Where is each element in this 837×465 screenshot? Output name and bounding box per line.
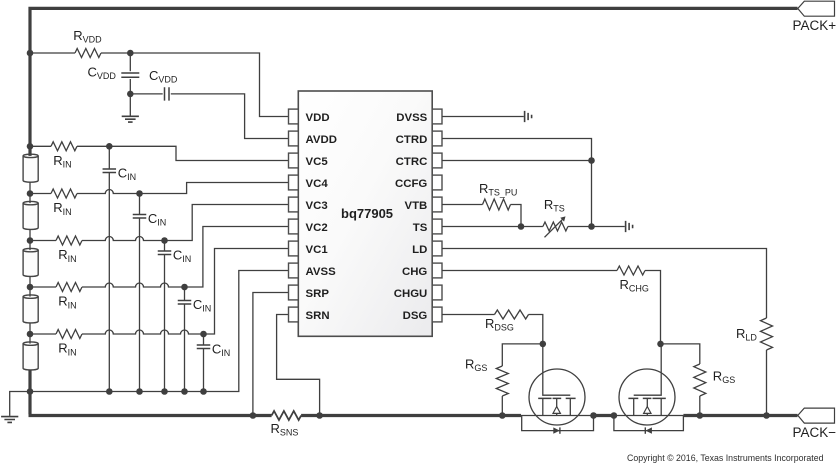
svg-text:LD: LD [412, 244, 427, 256]
pin VC3 (left) [289, 197, 299, 212]
wire C_IN 2 upper lead [139, 194, 141, 215]
wire to R_IN 3 [30, 240, 56, 242]
node TS pullup junction [518, 223, 525, 230]
svg-text:RTS_PU: RTS_PU [479, 181, 517, 198]
battery cell 1 [23, 156, 38, 182]
node cell junction 4 [27, 284, 34, 291]
wire rail under Q2 (thin) [614, 415, 684, 417]
pin CTRD (right) [432, 131, 442, 146]
svg-text:AVSS: AVSS [306, 266, 337, 278]
node R_GS rail junction (Q2) [697, 412, 704, 419]
node C_IN 4 bottom [181, 388, 188, 395]
wire cell5 top stub [29, 334, 31, 344]
ground below C_VDD [122, 116, 139, 122]
pin VC5 (left) [289, 153, 299, 168]
svg-text:AVDD: AVDD [306, 134, 337, 146]
svg-text:RSNS: RSNS [271, 421, 299, 438]
node TS ground junction [588, 223, 595, 230]
wire SRN sense [277, 315, 320, 416]
wire AVSS bus to pin [30, 271, 289, 392]
wire CTRC [442, 160, 592, 162]
wire to ground [129, 94, 131, 116]
wire cell1 top stub (thick) [28, 146, 31, 156]
transistor Q2 (CHG NFET) [619, 369, 675, 425]
wire CTRC to TS node [591, 161, 593, 227]
wire cell2 top stub [29, 194, 31, 204]
svg-text:RTS: RTS [544, 197, 565, 214]
node Q2 gate junction [657, 341, 664, 348]
wire DVSS to ground [442, 116, 524, 118]
wire C_VDD1 bottom lead [129, 79, 131, 94]
battery cell 5 [23, 344, 38, 370]
svg-text:RIN: RIN [58, 247, 76, 264]
wire R_TS_PU to TS node [511, 205, 522, 227]
node Q2 source rail junction [611, 412, 618, 419]
capacitor C_IN 4 [178, 301, 192, 305]
wire to system ground [10, 392, 30, 416]
thermistor R_TS [543, 222, 568, 231]
wire cell3 top stub [29, 241, 31, 251]
svg-text:CIN: CIN [148, 211, 166, 228]
pin TS (right) [432, 219, 442, 234]
wire C_IN 4 upper lead [184, 287, 186, 300]
wire cell4 top stub [29, 287, 31, 297]
pin LD (right) [432, 241, 442, 256]
resistor R_IN 2 [51, 189, 77, 198]
wire Q2 body diode loop [614, 416, 684, 431]
wire PACK- rail right (thick) [683, 414, 797, 417]
node C_IN column 3 top [161, 237, 168, 244]
svg-text:CHG: CHG [402, 266, 427, 278]
node R_LD rail junction [763, 412, 770, 419]
node cell junction 3 [27, 237, 34, 244]
wire R_GS to rail (Q2) [699, 396, 701, 416]
wire C_IN 5 upper lead [203, 334, 205, 345]
node PACK- terminal [798, 408, 835, 423]
pin CCFG (right) [432, 175, 442, 190]
node cell junction 1 [27, 143, 34, 150]
svg-text:Copyright © 2016, Texas Instru: Copyright © 2016, Texas Instruments Inco… [627, 453, 824, 463]
svg-text:CIN: CIN [118, 165, 136, 182]
svg-text:CTRD: CTRD [396, 134, 428, 146]
resistor R_GS (Q2) [694, 364, 706, 396]
svg-text:DSG: DSG [403, 310, 428, 322]
battery cell 4 [23, 297, 38, 323]
svg-text:PACK−: PACK− [793, 425, 837, 440]
wire Q2 gate to R_GS [661, 344, 700, 364]
svg-text:bq77905: bq77905 [341, 206, 393, 221]
svg-text:RDSG: RDSG [485, 316, 514, 333]
node C_VDD bottom junction [127, 91, 134, 98]
wire C_IN 3 lower lead [164, 255, 166, 392]
pin SRN (left) [289, 307, 299, 322]
wire AVDD pin connection [171, 94, 289, 139]
svg-text:RLD: RLD [736, 326, 757, 343]
pin AVSS (left) [289, 263, 299, 278]
wire PACK- rail mid (thick) [301, 414, 521, 417]
pin CTRC (right) [432, 153, 442, 168]
node cell junction 5 [27, 331, 34, 338]
wire PACK+ rail (thick) [30, 8, 798, 146]
wire cell3 bottom stub [29, 276, 31, 287]
node C_IN column 4 top [181, 284, 188, 291]
wire cell2 bottom stub [29, 229, 31, 240]
diode Q1 body [553, 427, 560, 433]
wire rail under Q1 (thin) [521, 415, 594, 417]
battery cell 3 [23, 250, 38, 276]
resistor R_DSG [495, 310, 529, 319]
ground DVSS [525, 111, 532, 122]
node VDD-top junction [27, 50, 34, 57]
wire R_IN 2 to VC4 pin [77, 190, 140, 194]
ground TS [626, 221, 633, 232]
wire R_IN 1 to VC5 pin [77, 145, 109, 147]
resistor R_IN 4 [56, 283, 82, 292]
svg-text:RIN: RIN [53, 200, 71, 217]
node C_IN 1 bottom [106, 388, 113, 395]
wire to R_IN 4 [30, 286, 56, 288]
svg-text:CIN: CIN [173, 247, 191, 264]
node C_IN 3 bottom [161, 388, 168, 395]
wire cell4 bottom stub [29, 323, 31, 334]
pin VC1 (left) [289, 241, 299, 256]
svg-text:CVDD: CVDD [149, 68, 178, 85]
svg-text:RIN: RIN [53, 153, 71, 170]
node cell junction 2 [27, 190, 34, 197]
wire R_CHG to Q2 gate [645, 271, 661, 344]
wire R_DSG to Q1 gate [529, 315, 543, 344]
svg-text:PACK+: PACK+ [793, 18, 837, 33]
svg-text:DVSS: DVSS [396, 112, 427, 124]
wire VTB to R_TS_PU [442, 204, 483, 206]
wire C_IN 1 lower lead [108, 173, 110, 392]
node Q1 gate junction [540, 341, 547, 348]
wire CHG to R_CHG [442, 270, 617, 272]
ground bottom-left [1, 417, 18, 423]
resistor R_IN 3 [56, 236, 82, 245]
resistor R_VDD [75, 49, 101, 58]
svg-text:RVDD: RVDD [73, 28, 102, 45]
wire Q1 gate to R_GS [502, 344, 543, 366]
node CTRC junction [588, 157, 595, 164]
wire C_IN 1 upper lead [108, 146, 110, 169]
node PACK+ terminal [798, 1, 835, 16]
wire R_LD to rail [766, 350, 768, 416]
resistor R_LD [761, 318, 773, 350]
wire C_IN 5 lower lead [203, 349, 205, 392]
resistor R_IN 5 [56, 330, 82, 339]
node C_IN column 5 top [200, 331, 207, 338]
svg-text:CTRC: CTRC [396, 156, 428, 168]
diode Q2 body [645, 427, 652, 433]
wire SRP sense [253, 293, 289, 416]
svg-text:VC3: VC3 [306, 200, 328, 212]
wire TS to R_TS [521, 226, 543, 228]
wire R_GS to rail (Q1) [501, 396, 503, 416]
pin AVDD (left) [289, 131, 299, 146]
capacitor C_IN 1 [103, 169, 117, 173]
pin VTB (right) [432, 197, 442, 212]
wire cell1 bottom stub [29, 182, 31, 193]
node SRN rail junction [316, 412, 323, 419]
wire to R_IN 2 [30, 193, 51, 195]
wire CTRD [442, 139, 592, 161]
svg-text:SRN: SRN [306, 310, 330, 322]
node R_GS rail junction (Q1) [499, 412, 506, 419]
op-amp U1 body (bq77905) [298, 91, 432, 336]
svg-text:CVDD: CVDD [88, 65, 117, 82]
svg-text:RCHG: RCHG [620, 277, 649, 294]
svg-text:VDD: VDD [306, 112, 330, 124]
wire R_VDD to C_VDD node [101, 52, 130, 54]
svg-text:VC4: VC4 [306, 178, 329, 190]
capacitor C_IN 2 [133, 215, 147, 219]
node C_IN 2 bottom [136, 388, 143, 395]
wire C_IN 2 lower lead [139, 218, 141, 391]
wire to R_VDD [30, 52, 75, 54]
resistor R_SNS [272, 411, 302, 420]
pin VC2 (left) [289, 219, 299, 234]
wire TS [442, 226, 521, 228]
wire R_IN 5 to VC1 pin [82, 330, 204, 334]
wire to C_VDD2 [130, 93, 162, 95]
resistor R_CHG [617, 266, 645, 275]
node Q1 drain rail junction [590, 412, 597, 419]
capacitor C_IN 3 [158, 251, 172, 255]
wire LD to R_LD [442, 249, 767, 319]
wire C_VDD1 top lead [129, 53, 131, 71]
wire VDD pin connection [130, 53, 288, 117]
resistor R_TS_PU [483, 199, 511, 210]
svg-text:RIN: RIN [58, 341, 76, 358]
svg-text:VTB: VTB [405, 200, 428, 212]
wire cell5 bottom to PACK- rail (thick) [28, 370, 31, 414]
svg-text:SRP: SRP [306, 288, 330, 300]
node C_IN 5 bottom [200, 388, 207, 395]
pin CHG (right) [432, 263, 442, 278]
node battery negative junction [27, 388, 34, 395]
node C_IN column 2 top [136, 190, 143, 197]
wire R_TS to ground [568, 226, 625, 228]
svg-text:CCFG: CCFG [395, 178, 427, 190]
pin DVSS (right) [432, 109, 442, 124]
node C_IN column 1 top [106, 143, 113, 150]
capacitor C_VDD (series to AVDD) [165, 87, 170, 100]
wire to R_IN 1 [30, 145, 51, 147]
wire DSG to R_DSG [442, 314, 495, 316]
resistor R_GS (Q1) [496, 366, 508, 396]
node C_VDD top junction [127, 50, 134, 57]
battery cell 2 [23, 203, 38, 229]
wire PACK- rail left (thick) [29, 414, 272, 417]
svg-text:CIN: CIN [193, 297, 211, 314]
wire R_IN 4 to VC2 pin [82, 283, 185, 287]
svg-text:VC5: VC5 [306, 156, 329, 168]
svg-text:CHGU: CHGU [394, 288, 428, 300]
wire to R_IN 5 [30, 333, 56, 335]
svg-text:RGS: RGS [465, 357, 487, 374]
svg-text:TS: TS [413, 222, 428, 234]
pin DSG (right) [432, 307, 442, 322]
svg-text:VC1: VC1 [306, 244, 329, 256]
svg-text:CIN: CIN [212, 341, 230, 358]
capacitor C_VDD (bypass) [121, 73, 139, 77]
pin SRP (left) [289, 285, 299, 300]
wire rail between FETs (thick) [594, 414, 614, 417]
pin VC4 (left) [289, 175, 299, 190]
svg-text:RIN: RIN [58, 294, 76, 311]
wire C_IN 3 upper lead [164, 241, 166, 251]
capacitor C_IN 5 [197, 345, 211, 349]
pin VDD (left) [289, 109, 299, 124]
svg-text:RGS: RGS [713, 369, 735, 386]
resistor R_IN 1 [51, 142, 77, 151]
wire Q1 body diode loop [522, 416, 594, 431]
pin CHGU (right) [432, 285, 442, 300]
transistor Q1 (DSG NFET) [529, 369, 585, 425]
svg-text:VC2: VC2 [306, 222, 328, 234]
wire R_IN 3 to VC3 pin [82, 237, 165, 241]
wire C_IN 4 lower lead [184, 304, 186, 391]
node SRP rail junction [250, 412, 257, 419]
